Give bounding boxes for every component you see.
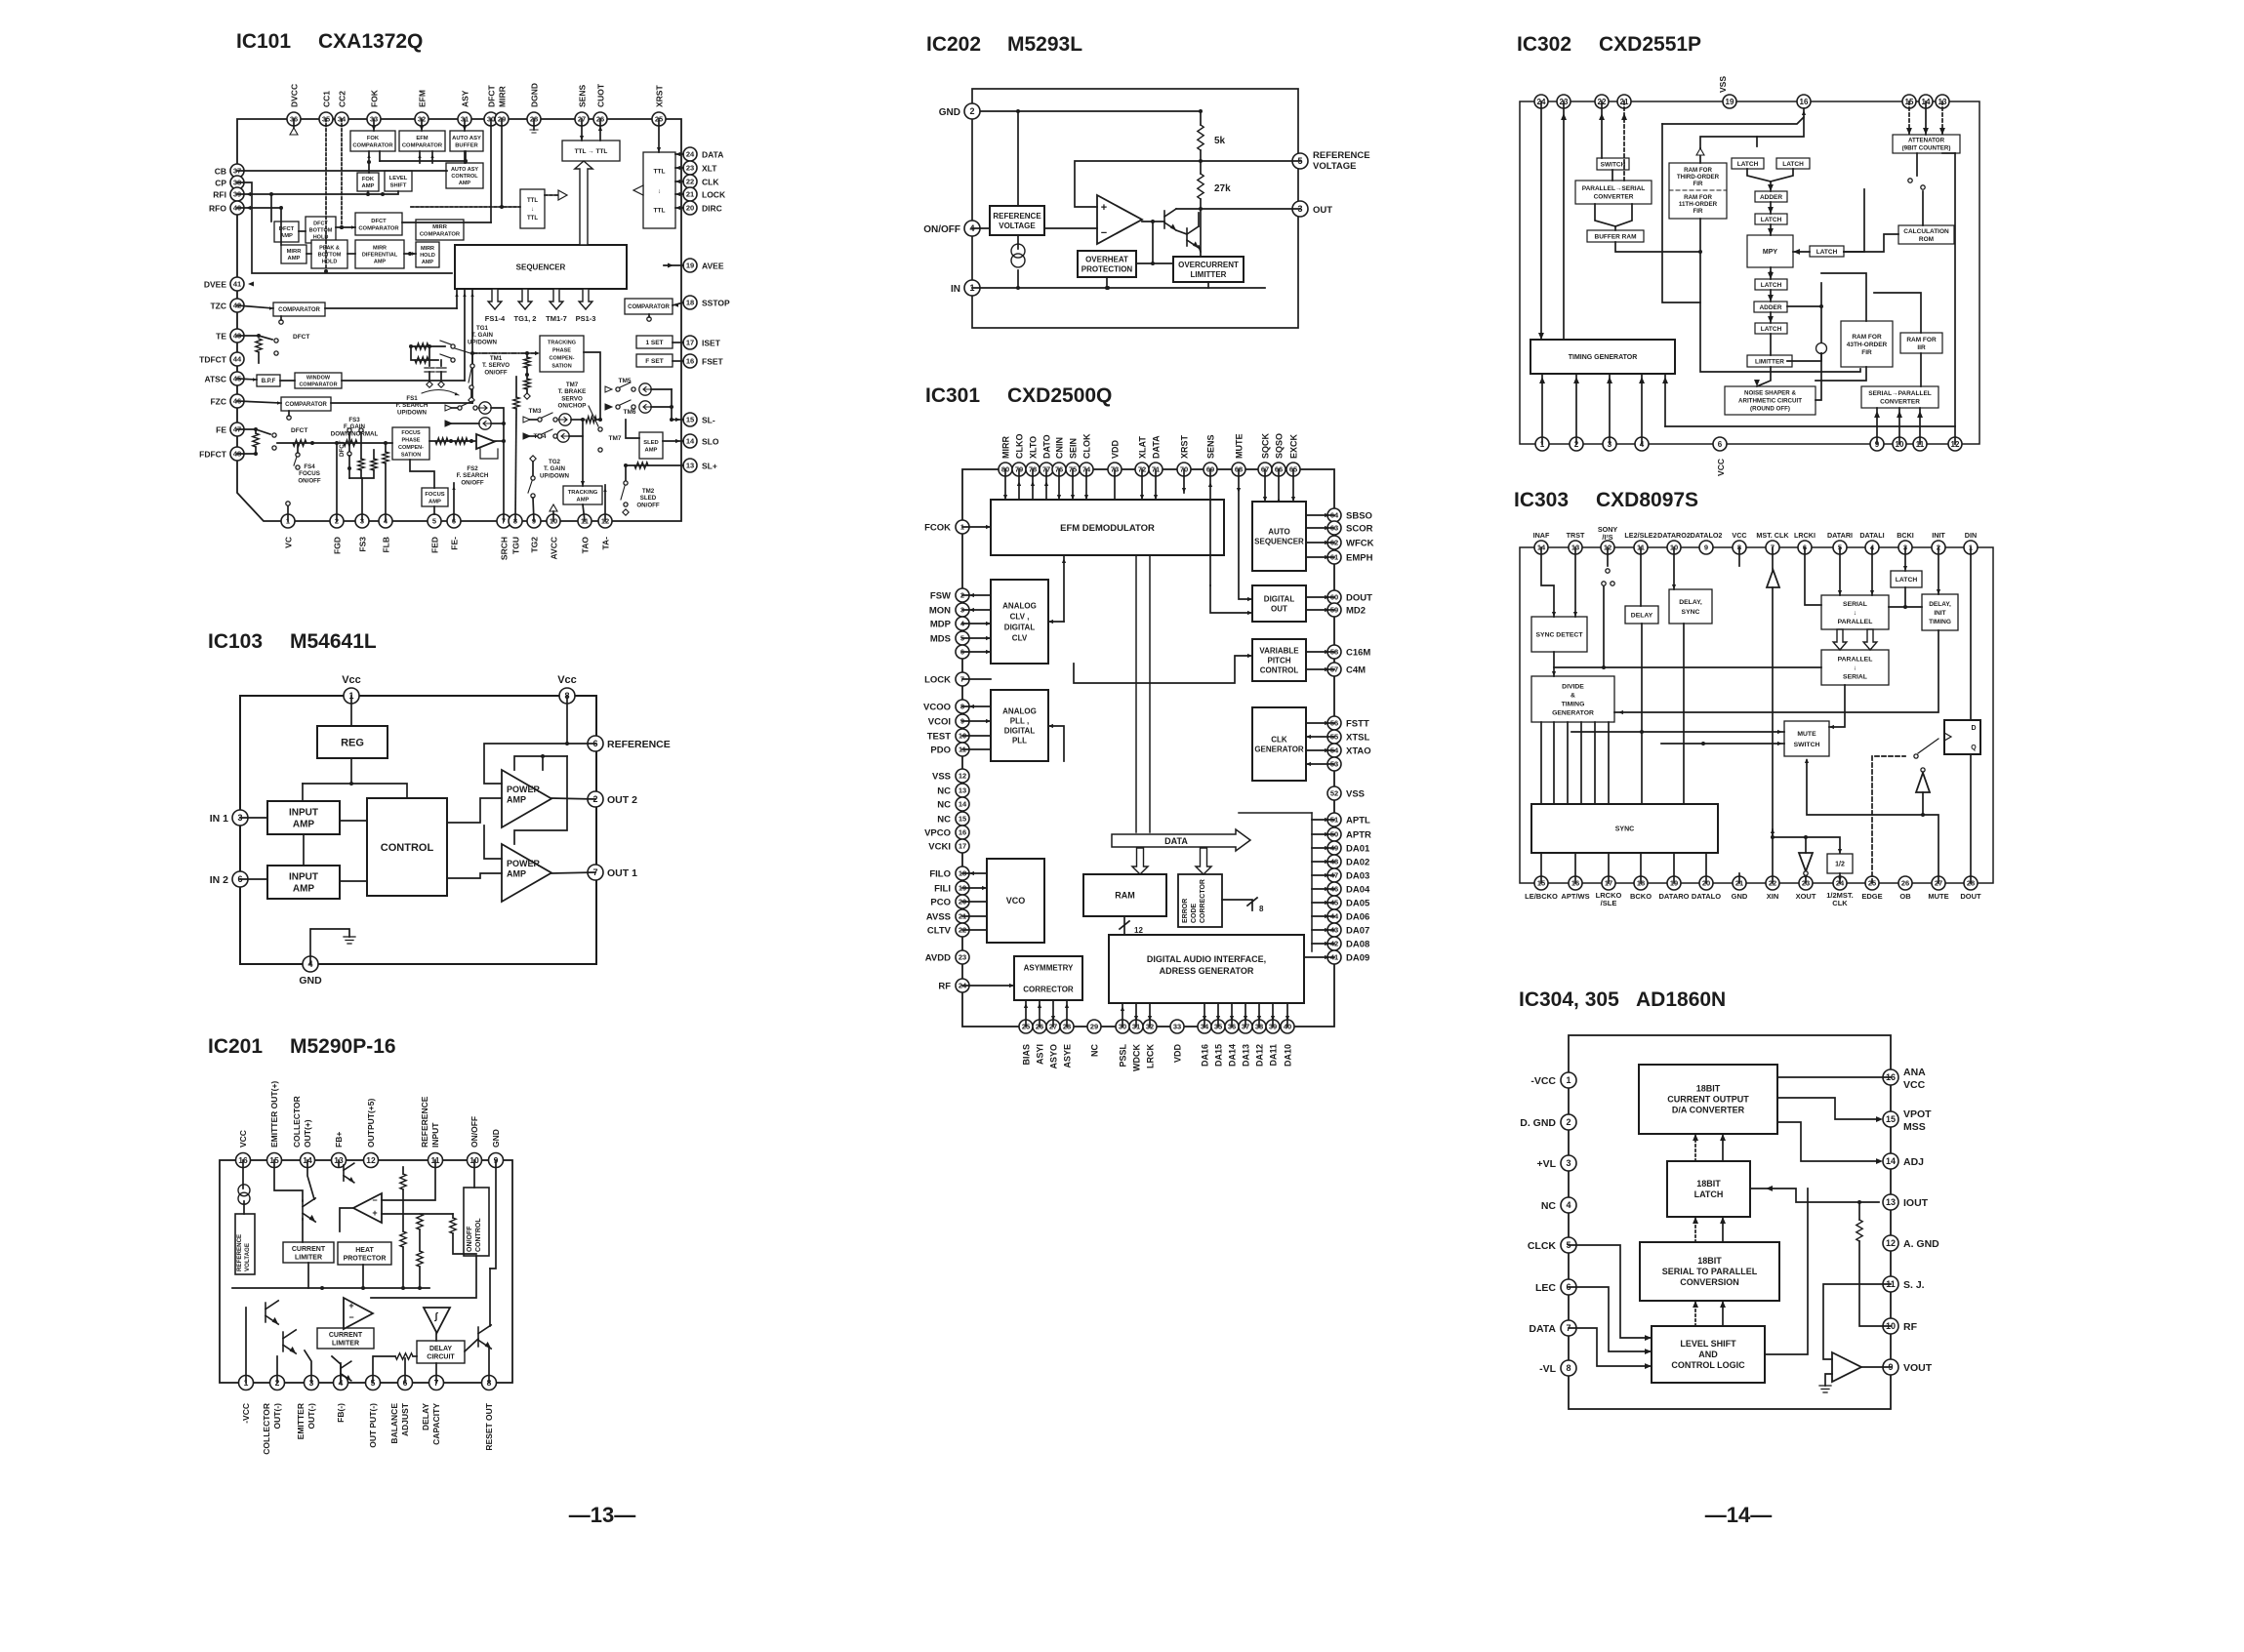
- junction: [1199, 159, 1203, 163]
- svg-text:GND: GND: [491, 1129, 501, 1148]
- lever: [620, 383, 631, 387]
- pin 67 SQCK: [1258, 463, 1272, 476]
- svg-text:CC2: CC2: [338, 91, 347, 107]
- svg-text:OUT(-): OUT(-): [272, 1403, 282, 1430]
- svg-text:LIMITTER: LIMITTER: [1755, 358, 1784, 365]
- svg-text:14: 14: [1886, 1156, 1896, 1166]
- wire comp to sstop: [673, 302, 683, 305]
- junction: [269, 192, 273, 196]
- wire s2p to latch: [1722, 1217, 1724, 1242]
- svg-text:LOCK: LOCK: [924, 675, 951, 686]
- svg-text:20: 20: [686, 204, 694, 213]
- wire fzc: [237, 401, 281, 403]
- svg-text:DA10: DA10: [1284, 1044, 1293, 1067]
- arrowhead: [1154, 495, 1158, 500]
- pin 41 DVEE: [230, 277, 244, 291]
- lever: [1918, 739, 1938, 753]
- resistor fe3: [344, 440, 357, 446]
- arrowhead: [455, 293, 458, 297]
- arrowhead: [675, 439, 680, 443]
- arrowhead: [1071, 495, 1075, 500]
- wire latch from calc: [1844, 189, 1864, 252]
- pin top 23: [1557, 95, 1571, 108]
- arrowhead: [1062, 558, 1066, 563]
- svg-text:COMPARATOR: COMPARATOR: [285, 402, 327, 408]
- wire r1 top: [402, 1167, 404, 1174]
- wire MUTE down: [1239, 469, 1252, 599]
- arrowhead: [1768, 316, 1774, 323]
- junction: [335, 441, 339, 445]
- arrowhead: [1048, 724, 1053, 728]
- svg-text:PEAK &: PEAK &: [319, 246, 340, 252]
- svg-text:DA13: DA13: [1242, 1044, 1251, 1067]
- wire dac to VPOT: [1777, 1098, 1879, 1119]
- arrowhead: [675, 180, 680, 183]
- svg-text:BUFFER RAM: BUFFER RAM: [1595, 233, 1637, 240]
- arrowhead: [1937, 589, 1940, 594]
- pin 65 EXCK: [1286, 463, 1300, 476]
- svg-text:15: 15: [686, 416, 694, 424]
- wire XRST: [1183, 469, 1185, 493]
- pin bottom 15 LE/BCKO: [1534, 876, 1548, 890]
- arrowhead: [1939, 128, 1945, 135]
- wire DA out: [1312, 915, 1334, 917]
- IC302 outer boundary: [1520, 101, 1979, 444]
- block: RAM FOR THIRD-ORDER FIR / 11TH-ORDER FIR: [1669, 163, 1727, 219]
- svg-text:XLAT: XLAT: [1138, 436, 1148, 459]
- wire tzc comp out: [325, 307, 457, 309]
- wire ref into pamp2: [484, 744, 567, 784]
- svg-text:11TH-ORDER: 11TH-ORDER: [1679, 201, 1718, 208]
- wire DFCT down: [490, 119, 492, 222]
- wire WFCK: [1306, 542, 1334, 544]
- svg-text:24: 24: [686, 150, 695, 159]
- svg-text:MUTE: MUTE: [1928, 892, 1948, 901]
- svg-text:XLT: XLT: [702, 164, 717, 174]
- svg-text:ARITHMETIC CIRCUIT: ARITHMETIC CIRCUIT: [1738, 398, 1802, 405]
- wire latch to mpy: [1770, 224, 1772, 235]
- wire fe to fpc: [277, 442, 392, 444]
- svg-text:LATCH: LATCH: [1782, 161, 1804, 168]
- arrowhead: [351, 225, 355, 228]
- block: NOISE SHAPER &amp; ARITHMETIC CIRCUIT (ROUND OFF): [1725, 386, 1816, 415]
- svg-text:Vcc: Vcc: [557, 674, 577, 686]
- block: REG: [317, 726, 388, 758]
- svg-text:VOLTAGE: VOLTAGE: [244, 1243, 251, 1271]
- lever: [621, 486, 625, 500]
- wire IN2: [240, 878, 267, 880]
- svg-text:VSS: VSS: [1718, 76, 1728, 93]
- wire clv up: [1063, 555, 1065, 622]
- pin 38 DA12: [1252, 1020, 1266, 1033]
- svg-text:AUTO ASY: AUTO ASY: [451, 167, 478, 173]
- svg-text:VSS: VSS: [1346, 789, 1365, 800]
- AVCC arrow: [550, 504, 557, 511]
- wire DA out: [1312, 819, 1334, 821]
- tm1 end: [469, 397, 474, 403]
- wire latch to adder2: [1770, 290, 1772, 302]
- arrowhead: [675, 418, 680, 422]
- arrowhead: [1876, 1158, 1883, 1164]
- svg-text:DA05: DA05: [1346, 899, 1370, 909]
- tg2 top: [530, 456, 536, 462]
- svg-text:C4M: C4M: [1346, 665, 1366, 676]
- arrowhead: [1768, 295, 1774, 302]
- pin 15 EMITTER OUT(+): [267, 1153, 282, 1168]
- wire DA out: [1312, 861, 1334, 863]
- pin 52 VSS: [1327, 786, 1341, 800]
- svg-text:13: 13: [959, 786, 966, 795]
- svg-text:T. SERVO: T. SERVO: [482, 362, 510, 369]
- svg-text:VCO: VCO: [1006, 896, 1026, 906]
- arrowhead: [969, 608, 974, 612]
- stub: [530, 419, 537, 421]
- DVCC arrow: [290, 128, 298, 135]
- arrowhead: [1552, 612, 1556, 617]
- svg-text:FS1-4: FS1-4: [485, 314, 506, 323]
- wire tzc: [237, 305, 273, 308]
- pin 27 SENS: [575, 112, 589, 126]
- wire levelshift down: [383, 191, 398, 194]
- wire SQCK: [1264, 469, 1266, 502]
- block: DIVIDE &amp; TIMING GENERATOR: [1531, 676, 1614, 722]
- svg-text:BALANCE: BALANCE: [389, 1403, 399, 1444]
- tm5 b: [632, 387, 635, 391]
- DVEE arrow: [248, 282, 254, 287]
- svg-text:EDGE: EDGE: [1861, 892, 1882, 901]
- wire noise fb: [1816, 353, 1821, 400]
- svg-text:MPY: MPY: [1763, 249, 1778, 256]
- wire clk out: [1306, 749, 1334, 751]
- arrow into latch: [1766, 1186, 1773, 1191]
- wire fs1b lead: [452, 423, 479, 424]
- pin 17 ISET: [683, 336, 697, 349]
- svg-text:GENERATOR: GENERATOR: [1254, 745, 1304, 753]
- TM3 gain: [557, 414, 571, 425]
- svg-text:CLV ,: CLV ,: [1010, 612, 1030, 621]
- svg-text:PARALLEL: PARALLEL: [1838, 619, 1873, 625]
- arrowhead: [1134, 1016, 1138, 1021]
- pin bottom 19 DATARO: [1667, 876, 1681, 890]
- wire opamp gnd: [1825, 1374, 1832, 1386]
- wire to SL-: [672, 419, 683, 421]
- svg-text:COMPARATOR: COMPARATOR: [628, 304, 670, 310]
- svg-text:MIRR: MIRR: [287, 249, 303, 255]
- arrowhead: [1325, 818, 1329, 822]
- svg-text:VCC: VCC: [1732, 531, 1746, 540]
- pin 46 DA04: [1327, 882, 1341, 896]
- wire clv pin: [962, 651, 991, 653]
- pin 29 MIRR: [495, 112, 509, 126]
- svg-text:UP/DOWN: UP/DOWN: [540, 472, 569, 479]
- tm4 a: [538, 434, 542, 438]
- svg-text:FZC: FZC: [210, 397, 226, 407]
- arrowhead: [1247, 597, 1252, 601]
- svg-text:DA16: DA16: [1201, 1044, 1210, 1067]
- wire current limiter down: [307, 1263, 309, 1288]
- pin 37 CB: [230, 164, 244, 178]
- pin 76 CNIN: [1052, 463, 1066, 476]
- wire heat protector down: [362, 1265, 364, 1288]
- wire opamp plus: [382, 1213, 453, 1215]
- svg-text:CONTROL: CONTROL: [1260, 665, 1299, 674]
- arrowhead: [463, 293, 466, 297]
- pin 20 PCO: [956, 895, 969, 908]
- wire SENS down: [1209, 469, 1211, 585]
- pin 43 TE: [230, 329, 244, 342]
- svg-text:ADDER: ADDER: [1760, 194, 1782, 201]
- arrowhead: [1325, 608, 1329, 612]
- svg-text:↓: ↓: [531, 207, 534, 213]
- pin 7 LOCK: [956, 672, 969, 686]
- svg-text:AD1860N: AD1860N: [1636, 988, 1726, 1011]
- block: 1/2 divider: [1827, 854, 1853, 873]
- svg-text:TG1, 2: TG1, 2: [514, 314, 537, 323]
- wire fir up: [1699, 148, 1701, 163]
- arrowhead: [986, 622, 991, 625]
- svg-text:DVCC: DVCC: [290, 84, 300, 107]
- sequencer bus arrow: [518, 289, 532, 309]
- IC304,305 AD1860N: [1519, 988, 1939, 1409]
- wire SQSO: [1278, 469, 1280, 502]
- wire famp to FED: [433, 506, 435, 514]
- block: OVERHEAT PROTECTION: [1078, 251, 1136, 277]
- lever: [469, 369, 471, 383]
- svg-text:DFCT: DFCT: [487, 85, 497, 107]
- svg-text:VARIABLE: VARIABLE: [1259, 646, 1299, 655]
- wire srch to pin7: [503, 423, 505, 521]
- wire C16M: [1306, 651, 1334, 653]
- IC103 M54641L: [208, 630, 671, 987]
- wire res to RF: [1859, 1241, 1891, 1326]
- pin 2 FGD: [330, 514, 344, 528]
- wire r1-r2: [402, 1189, 404, 1231]
- lever: [440, 354, 451, 358]
- arrowhead: [1870, 590, 1874, 595]
- tg2 c1: [531, 476, 535, 480]
- svg-text:DIGITAL: DIGITAL: [1264, 594, 1295, 603]
- arrowhead: [1771, 828, 1775, 833]
- block: DFCT COMPARATOR: [355, 213, 402, 235]
- svg-text:RAM FOR: RAM FOR: [1684, 194, 1712, 201]
- svg-text:LATCH: LATCH: [1694, 1189, 1724, 1199]
- pin 4 NC: [1561, 1197, 1576, 1213]
- pin 36 DVCC: [287, 112, 301, 126]
- svg-text:NC: NC: [1090, 1044, 1100, 1057]
- svg-text:OUT(-): OUT(-): [306, 1403, 316, 1430]
- pin 47 DA03: [1327, 868, 1341, 882]
- pin 75 SEIN: [1066, 463, 1080, 476]
- bus EFM to DATA: [1135, 555, 1137, 832]
- block: CLK GENERATOR: [1252, 707, 1306, 781]
- arrowhead: [1325, 955, 1329, 959]
- pin 68 MUTE: [1232, 463, 1245, 476]
- wire RAM to DAI: [1123, 916, 1125, 935]
- wire tg1 dashdot: [472, 352, 536, 354]
- wire bottom to s2p: [1898, 408, 1900, 444]
- wire CP net: [237, 182, 452, 273]
- svg-text:MIRR: MIRR: [1001, 436, 1011, 459]
- svg-text:DA03: DA03: [1346, 871, 1369, 882]
- arrowhead: [986, 719, 991, 723]
- arrowhead: [1325, 595, 1329, 599]
- svg-text:27k: 27k: [1214, 183, 1231, 194]
- wire bpf to window: [280, 380, 295, 382]
- arrowhead: [1693, 1301, 1698, 1308]
- svg-text:9: 9: [1704, 544, 1708, 552]
- pin 42 TZC: [230, 299, 244, 312]
- wire EFM: [421, 119, 423, 131]
- svg-text:DIFERENTIAL: DIFERENTIAL: [362, 253, 398, 259]
- tm5 tri: [605, 386, 612, 392]
- svg-text:LATCH: LATCH: [1816, 249, 1838, 256]
- svg-text:2: 2: [1566, 1117, 1571, 1127]
- stub: [452, 407, 457, 409]
- svg-text:THIRD-ORDER: THIRD-ORDER: [1677, 174, 1720, 181]
- svg-text:FS3: FS3: [348, 417, 360, 423]
- switch contact: [1606, 569, 1610, 573]
- tm2 c1: [624, 481, 628, 485]
- svg-text:16: 16: [1800, 98, 1809, 106]
- svg-text:COMPEN-: COMPEN-: [550, 356, 575, 362]
- svg-text:CONVERTER: CONVERTER: [1880, 399, 1920, 406]
- stub: [288, 411, 290, 416]
- wire tpc out: [584, 352, 600, 420]
- junction: [1016, 109, 1020, 113]
- svg-text:DIGITAL: DIGITAL: [1004, 623, 1036, 631]
- pin 13 IOUT: [1883, 1194, 1898, 1210]
- arrowhead: [1306, 762, 1311, 766]
- junction: [340, 225, 344, 229]
- svg-text:ADDER: ADDER: [1759, 304, 1781, 311]
- svg-text:WINDOW: WINDOW: [306, 376, 331, 382]
- svg-text:8: 8: [1259, 905, 1264, 913]
- svg-text:SERIAL TO PARALLEL: SERIAL TO PARALLEL: [1662, 1267, 1758, 1276]
- wire sled in: [626, 420, 639, 438]
- transistor fb: [344, 1163, 354, 1183]
- tm7 c2: [598, 448, 602, 452]
- svg-text:IC202: IC202: [926, 33, 981, 56]
- svg-text:TRACKING: TRACKING: [568, 490, 598, 496]
- arrowhead: [1838, 590, 1842, 595]
- junction: [310, 441, 314, 445]
- svg-text:&: &: [1571, 692, 1575, 699]
- wire DATA: [675, 153, 683, 155]
- wire FS3 down: [361, 478, 363, 521]
- schmitt trigger: [424, 1308, 450, 1333]
- block: TIMING GENERATOR: [1530, 340, 1675, 374]
- svg-text:SLED: SLED: [640, 495, 657, 502]
- wire iir up: [1874, 293, 1921, 333]
- wire AVCC stub: [552, 511, 554, 521]
- svg-text:CLTV: CLTV: [927, 926, 952, 937]
- wire: [526, 389, 528, 393]
- wire te to sw: [259, 336, 272, 340]
- wire fs1 out: [491, 408, 504, 423]
- block: LIMITTER: [1747, 355, 1792, 367]
- arrowhead: [1084, 495, 1088, 500]
- junction: [598, 418, 602, 422]
- wire ASY: [464, 119, 466, 131]
- svg-text:POWER: POWER: [507, 785, 541, 794]
- block: 18BIT CURRENT OUTPUT D/A CONVERTER: [1639, 1065, 1777, 1134]
- pin 35 DA15: [1211, 1020, 1225, 1033]
- block: MIRR HOLD AMP: [416, 242, 439, 267]
- pin 25 XRST: [652, 112, 666, 126]
- wire adder fb: [1820, 283, 1822, 342]
- wire switch to calcrom: [1922, 191, 1924, 225]
- svg-text:AMP: AMP: [459, 181, 471, 186]
- pin 24 DATA: [683, 147, 697, 161]
- svg-text:A. GND: A. GND: [1903, 1238, 1939, 1250]
- wire DA out: [1312, 902, 1334, 904]
- svg-text:UP/DOWN: UP/DOWN: [468, 339, 497, 345]
- wire dfct comp out: [402, 222, 491, 223]
- svg-text:VOLTAGE: VOLTAGE: [1313, 161, 1357, 172]
- arrowhead: [253, 378, 257, 381]
- arrowhead: [1621, 113, 1627, 120]
- svg-text:SYNC DETECT: SYNC DETECT: [1536, 631, 1584, 638]
- block: TTL ↓ TTL: [520, 189, 545, 228]
- svg-text:EMPH: EMPH: [1346, 553, 1373, 564]
- op-amp low: [344, 1298, 373, 1329]
- pin 3 +VL: [1561, 1155, 1576, 1171]
- pin 1 FCOK: [956, 520, 969, 534]
- pin 8 RESET OUT: [482, 1376, 497, 1390]
- svg-text:SL-: SL-: [702, 416, 715, 425]
- block: CURRENT LIMITER: [283, 1242, 334, 1263]
- wire mirramp to peak: [306, 253, 311, 255]
- wire XLAT: [1141, 469, 1143, 500]
- TM4 gain: [557, 430, 571, 442]
- wire asym pin: [1066, 1000, 1068, 1027]
- block: RAM: [1083, 874, 1166, 916]
- wire atsc: [237, 379, 257, 380]
- wire bottom rail: [1665, 425, 1955, 427]
- svg-text:DA09: DA09: [1346, 953, 1369, 964]
- svg-text:HOLD: HOLD: [420, 253, 435, 259]
- wire sync to pin: [1705, 853, 1707, 883]
- wire pin24 down: [1540, 101, 1542, 340]
- svg-text:TGU: TGU: [511, 537, 521, 554]
- pin top 14: [1919, 95, 1933, 108]
- block: SLED AMP: [639, 432, 663, 459]
- pin bottom 24 1/2MST.CLK: [1833, 876, 1847, 890]
- svg-text:INPUT: INPUT: [289, 808, 318, 819]
- pin bottom 4: [1635, 437, 1649, 451]
- wire to current limiter: [302, 1219, 304, 1242]
- fs1b tri: [445, 421, 452, 426]
- arrowhead: [1897, 411, 1902, 418]
- svg-text:FIR: FIR: [1693, 181, 1703, 187]
- pin 1 VC: [281, 514, 295, 528]
- arrowhead: [1306, 735, 1311, 739]
- arrowhead: [1793, 249, 1800, 255]
- svg-text:LATCH: LATCH: [1761, 326, 1782, 333]
- stub: [385, 443, 387, 452]
- tm1 c2: [469, 385, 473, 389]
- wire latch to delayinit: [1905, 606, 1922, 608]
- svg-text:COMPARATOR: COMPARATOR: [358, 225, 399, 231]
- switch contact: [1921, 185, 1925, 189]
- TM5 gain: [639, 383, 653, 395]
- svg-text:12: 12: [959, 772, 966, 781]
- transistor top: [303, 1198, 315, 1222]
- IC201 outer boundary: [220, 1160, 512, 1383]
- block: AUTO ASY CONTROL AMP: [446, 163, 483, 188]
- junction: [401, 1286, 405, 1290]
- pin 37 DA13: [1239, 1020, 1252, 1033]
